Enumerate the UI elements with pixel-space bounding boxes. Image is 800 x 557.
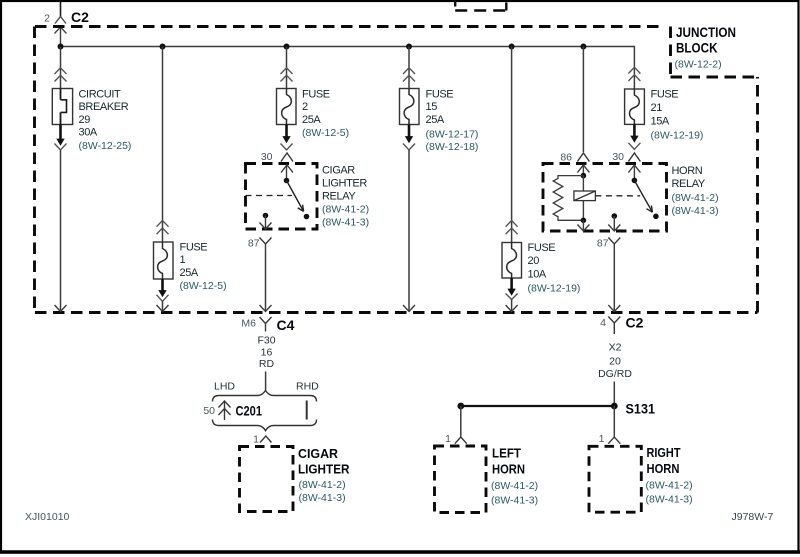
svg-text:87: 87 — [248, 238, 260, 250]
svg-text:(8W-12-19): (8W-12-19) — [651, 130, 704, 142]
cigar lighter relay pin 87 node — [263, 213, 269, 219]
svg-text:(8W-12-19): (8W-12-19) — [528, 283, 581, 295]
horn relay output contact node — [653, 214, 659, 220]
cigar lighter relay label — [322, 165, 369, 229]
junction block dashed outline — [35, 27, 758, 313]
left horn label — [491, 445, 538, 506]
svg-text:(8W-41-3): (8W-41-3) — [491, 495, 538, 507]
horn relay pin 87 exit arrow — [608, 216, 620, 231]
svg-text:(8W-12-5): (8W-12-5) — [180, 280, 227, 292]
arrow at junction block bottom edge (circuit breaker output) — [55, 305, 67, 312]
circuit breaker label — [79, 89, 132, 152]
fuse 2 — [277, 89, 297, 125]
svg-text:X2: X2 — [609, 342, 622, 354]
wire bus to fuse 15 — [408, 47, 410, 89]
cigar lighter relay switch arm — [287, 181, 304, 212]
crossing chevrons on circuit breaker wire — [55, 68, 67, 82]
connector C201 RHD circuit stub — [306, 401, 308, 420]
horn relay pin 85 exit arrow — [577, 220, 589, 231]
svg-text:RELAY: RELAY — [322, 191, 356, 203]
fuse 21 — [625, 89, 645, 124]
connector C4 fork — [260, 317, 272, 332]
arrow at junction block bottom edge (fuse 15 output) — [403, 305, 415, 312]
svg-text:HORN: HORN — [672, 165, 703, 177]
svg-text:FUSE: FUSE — [426, 89, 454, 101]
wire fuse 1 to junction block edge — [162, 301, 164, 311]
crossing chevrons on fuse 1 wire — [157, 221, 169, 235]
junction dot at circuit breaker branch — [58, 44, 64, 50]
svg-text:FUSE: FUSE — [528, 242, 556, 254]
wire fuse 20 to junction block edge — [511, 300, 513, 312]
connector C201 brace symbol — [213, 390, 317, 430]
crossing chevrons on fuse 15 wire — [403, 68, 415, 82]
svg-text:FUSE: FUSE — [180, 241, 208, 253]
svg-text:RD: RD — [259, 358, 275, 370]
wire X2 labels — [598, 342, 632, 380]
splice node S131 — [611, 403, 618, 410]
connector fork at cigar lighter relay pin 30 — [281, 153, 293, 162]
svg-text:(8W-12-2): (8W-12-2) — [675, 58, 722, 70]
arrow at junction block bottom edge (to C4) — [260, 305, 272, 312]
horn relay mechanical link dashed — [595, 195, 640, 197]
fuse 2 label — [302, 89, 349, 140]
horn relay coil lower node — [581, 218, 587, 224]
cigar lighter label — [298, 446, 350, 504]
connector chevron at cigar lighter pin 1 — [260, 436, 272, 443]
svg-text:J978W-7: J978W-7 — [732, 511, 774, 523]
crossing chevrons on fuse 2 wire — [281, 68, 293, 82]
splice node left — [457, 403, 464, 410]
svg-text:30A: 30A — [79, 127, 98, 139]
right horn box — [589, 446, 641, 512]
cigar lighter relay internal dashed divider — [246, 195, 293, 197]
arrow below circuit breaker — [55, 125, 67, 151]
svg-text:25A: 25A — [302, 114, 321, 126]
wire from top to connector C2 — [60, 2, 62, 17]
svg-text:M6: M6 — [241, 317, 256, 329]
svg-text:LIGHTER: LIGHTER — [298, 461, 350, 476]
arrow below fuse 1 — [157, 279, 169, 301]
svg-text:LEFT: LEFT — [492, 445, 521, 460]
svg-text:1: 1 — [253, 434, 259, 446]
cigar lighter relay common contact node — [284, 178, 290, 184]
svg-text:21: 21 — [651, 102, 663, 114]
svg-text:C2: C2 — [626, 315, 644, 331]
svg-text:RIGHT: RIGHT — [647, 445, 681, 460]
horn relay label — [672, 165, 719, 217]
svg-text:CIGAR: CIGAR — [322, 165, 355, 177]
svg-text:2: 2 — [302, 101, 308, 113]
svg-text:20: 20 — [609, 355, 621, 367]
svg-text:1: 1 — [180, 254, 186, 266]
svg-text:(8W-12-5): (8W-12-5) — [302, 127, 349, 139]
right horn label — [646, 445, 693, 506]
fuse 15 — [400, 89, 420, 125]
svg-text:15A: 15A — [651, 116, 670, 128]
arrow below fuse 15 — [403, 125, 415, 151]
connector fork below horn relay pin 87 — [608, 238, 620, 250]
svg-text:S131: S131 — [626, 401, 656, 417]
wire horn relay 87 to connector C2 — [613, 249, 615, 312]
circuit breaker 29 — [52, 89, 72, 125]
svg-text:CIRCUIT: CIRCUIT — [79, 89, 121, 101]
cigar lighter box — [240, 447, 294, 512]
arrow at junction block bottom edge (fuse 20 output) — [506, 305, 518, 312]
wire splice to right horn — [613, 406, 615, 435]
horn relay switch arm — [634, 180, 652, 212]
connector C2 bottom fork — [608, 317, 620, 335]
svg-text:(8W-12-25): (8W-12-25) — [79, 140, 132, 152]
svg-text:FUSE: FUSE — [651, 89, 679, 101]
junction dot at fuse 20 branch — [509, 44, 515, 50]
svg-text:(8W-41-2): (8W-41-2) — [299, 479, 346, 491]
svg-text:C4: C4 — [277, 317, 295, 333]
svg-text:(8W-41-3): (8W-41-3) — [322, 217, 369, 229]
horn relay pin 86 node — [581, 173, 587, 179]
svg-text:RHD: RHD — [296, 380, 319, 392]
fuse 20 label — [528, 242, 581, 295]
cigar lighter relay pin 30 entry arrow — [281, 165, 293, 181]
svg-text:1: 1 — [445, 433, 451, 445]
svg-text:4: 4 — [600, 317, 606, 329]
svg-text:86: 86 — [560, 152, 572, 164]
horn relay resistor — [553, 176, 583, 221]
svg-text:BLOCK: BLOCK — [676, 40, 718, 56]
wire circuit breaker to junction block edge — [60, 150, 62, 312]
fuse 15 label — [426, 89, 479, 154]
connector fork at horn relay pin 30 — [628, 153, 640, 162]
horn relay coil — [574, 176, 596, 221]
fuse 1 label — [180, 241, 227, 292]
arrow below fuse 20 — [506, 278, 518, 300]
fuse 20 — [502, 243, 522, 279]
cigar lighter relay output contact node — [304, 214, 310, 220]
svg-text:20: 20 — [528, 255, 540, 267]
arrow at junction block bottom edge (to C2) — [608, 305, 620, 312]
svg-text:(8W-41-2): (8W-41-2) — [491, 480, 538, 492]
wire bus corner to fuse 21 — [633, 46, 635, 89]
svg-text:10A: 10A — [528, 269, 547, 281]
wire relay 87 to connector C4 — [265, 249, 267, 312]
svg-text:F30: F30 — [257, 334, 275, 346]
wire bus to circuit breaker — [60, 47, 62, 89]
junction dot at horn relay pin 86 branch — [580, 44, 586, 50]
svg-text:15: 15 — [426, 101, 438, 113]
svg-text:29: 29 — [79, 114, 91, 126]
svg-text:(8W-41-3): (8W-41-3) — [672, 205, 719, 217]
bus wire from C2 across junction block — [61, 46, 635, 48]
svg-text:30: 30 — [612, 151, 624, 163]
svg-text:BREAKER: BREAKER — [79, 101, 129, 113]
svg-text:(8W-41-2): (8W-41-2) — [672, 192, 719, 204]
svg-text:(8W-12-18): (8W-12-18) — [426, 141, 479, 153]
svg-text:DG/RD: DG/RD — [598, 368, 632, 380]
arrow below fuse 2 — [281, 125, 293, 151]
wire bus to fuse 1 — [162, 47, 164, 243]
svg-text:RELAY: RELAY — [672, 178, 706, 190]
wire splice to left horn — [460, 406, 462, 435]
wire bus to fuse 20 — [511, 47, 513, 243]
junction dot at fuse 1 branch — [160, 44, 166, 50]
junction block label — [675, 24, 737, 70]
fuse 1 — [154, 242, 174, 279]
connector C201 double chevron — [219, 401, 231, 421]
horn relay box — [543, 164, 667, 232]
svg-text:(8W-41-2): (8W-41-2) — [646, 480, 693, 492]
svg-text:2: 2 — [44, 13, 50, 25]
svg-text:1: 1 — [599, 433, 605, 445]
wire fuse 15 to junction block edge — [408, 150, 410, 312]
horn relay pin 30 entry arrow — [628, 165, 640, 180]
wire DG/RD to splice S131 — [613, 382, 615, 407]
crossing chevrons on fuse 20 wire — [506, 221, 518, 235]
svg-text:30: 30 — [261, 151, 273, 163]
svg-text:JUNCTION: JUNCTION — [676, 24, 736, 40]
arrow below fuse 21 — [628, 124, 640, 149]
connector fork at left horn pin 1 — [455, 435, 467, 444]
svg-text:HORN: HORN — [647, 461, 680, 476]
svg-text:(8W-41-3): (8W-41-3) — [299, 492, 346, 504]
connector fork at right horn pin 1 — [608, 435, 620, 444]
cigar lighter relay box — [246, 164, 318, 230]
partial component box cut off at top — [455, 0, 507, 11]
svg-text:(8W-41-2): (8W-41-2) — [322, 204, 369, 216]
svg-text:LIGHTER: LIGHTER — [322, 178, 367, 190]
crossing chevrons on fuse 21 wire — [628, 67, 640, 81]
wire bus to horn relay pin 86 — [582, 47, 584, 153]
wire bus to fuse 2 — [286, 47, 288, 89]
svg-text:LHD: LHD — [214, 380, 235, 392]
svg-text:C2: C2 — [71, 9, 89, 25]
splice S131 bus — [461, 405, 615, 407]
left horn box — [435, 446, 487, 513]
svg-text:87: 87 — [597, 238, 609, 250]
svg-text:HORN: HORN — [492, 462, 525, 477]
horn relay pin 87 node — [612, 213, 618, 219]
connector fork at horn relay pin 86 — [577, 153, 589, 162]
svg-text:16: 16 — [261, 346, 273, 358]
fuse 21 label — [651, 89, 704, 142]
svg-text:C201: C201 — [236, 402, 263, 418]
connector fork below cigar lighter relay pin 87 — [260, 238, 272, 250]
arrow at junction block bottom edge (fuse 1 output) — [157, 305, 169, 312]
svg-text:(8W-41-3): (8W-41-3) — [646, 493, 693, 505]
svg-text:CIGAR: CIGAR — [298, 446, 339, 461]
horn relay pin 86 entry arrow — [577, 165, 589, 176]
svg-text:50: 50 — [203, 405, 215, 417]
cigar lighter relay pin 87 exit arrow — [260, 216, 272, 230]
connector C2 top symbol — [55, 17, 67, 47]
svg-text:FUSE: FUSE — [302, 89, 330, 101]
svg-text:(8W-12-17): (8W-12-17) — [426, 128, 479, 140]
horn relay common contact node — [632, 178, 638, 184]
junction dot at fuse 15 branch — [406, 44, 412, 50]
svg-text:XJI01010: XJI01010 — [25, 511, 70, 523]
svg-text:25A: 25A — [180, 267, 199, 279]
junction dot at fuse 2 branch — [284, 44, 290, 50]
wire F30 labels — [257, 334, 275, 370]
wire RD to connector C201 — [265, 372, 267, 391]
svg-text:25A: 25A — [426, 114, 445, 126]
